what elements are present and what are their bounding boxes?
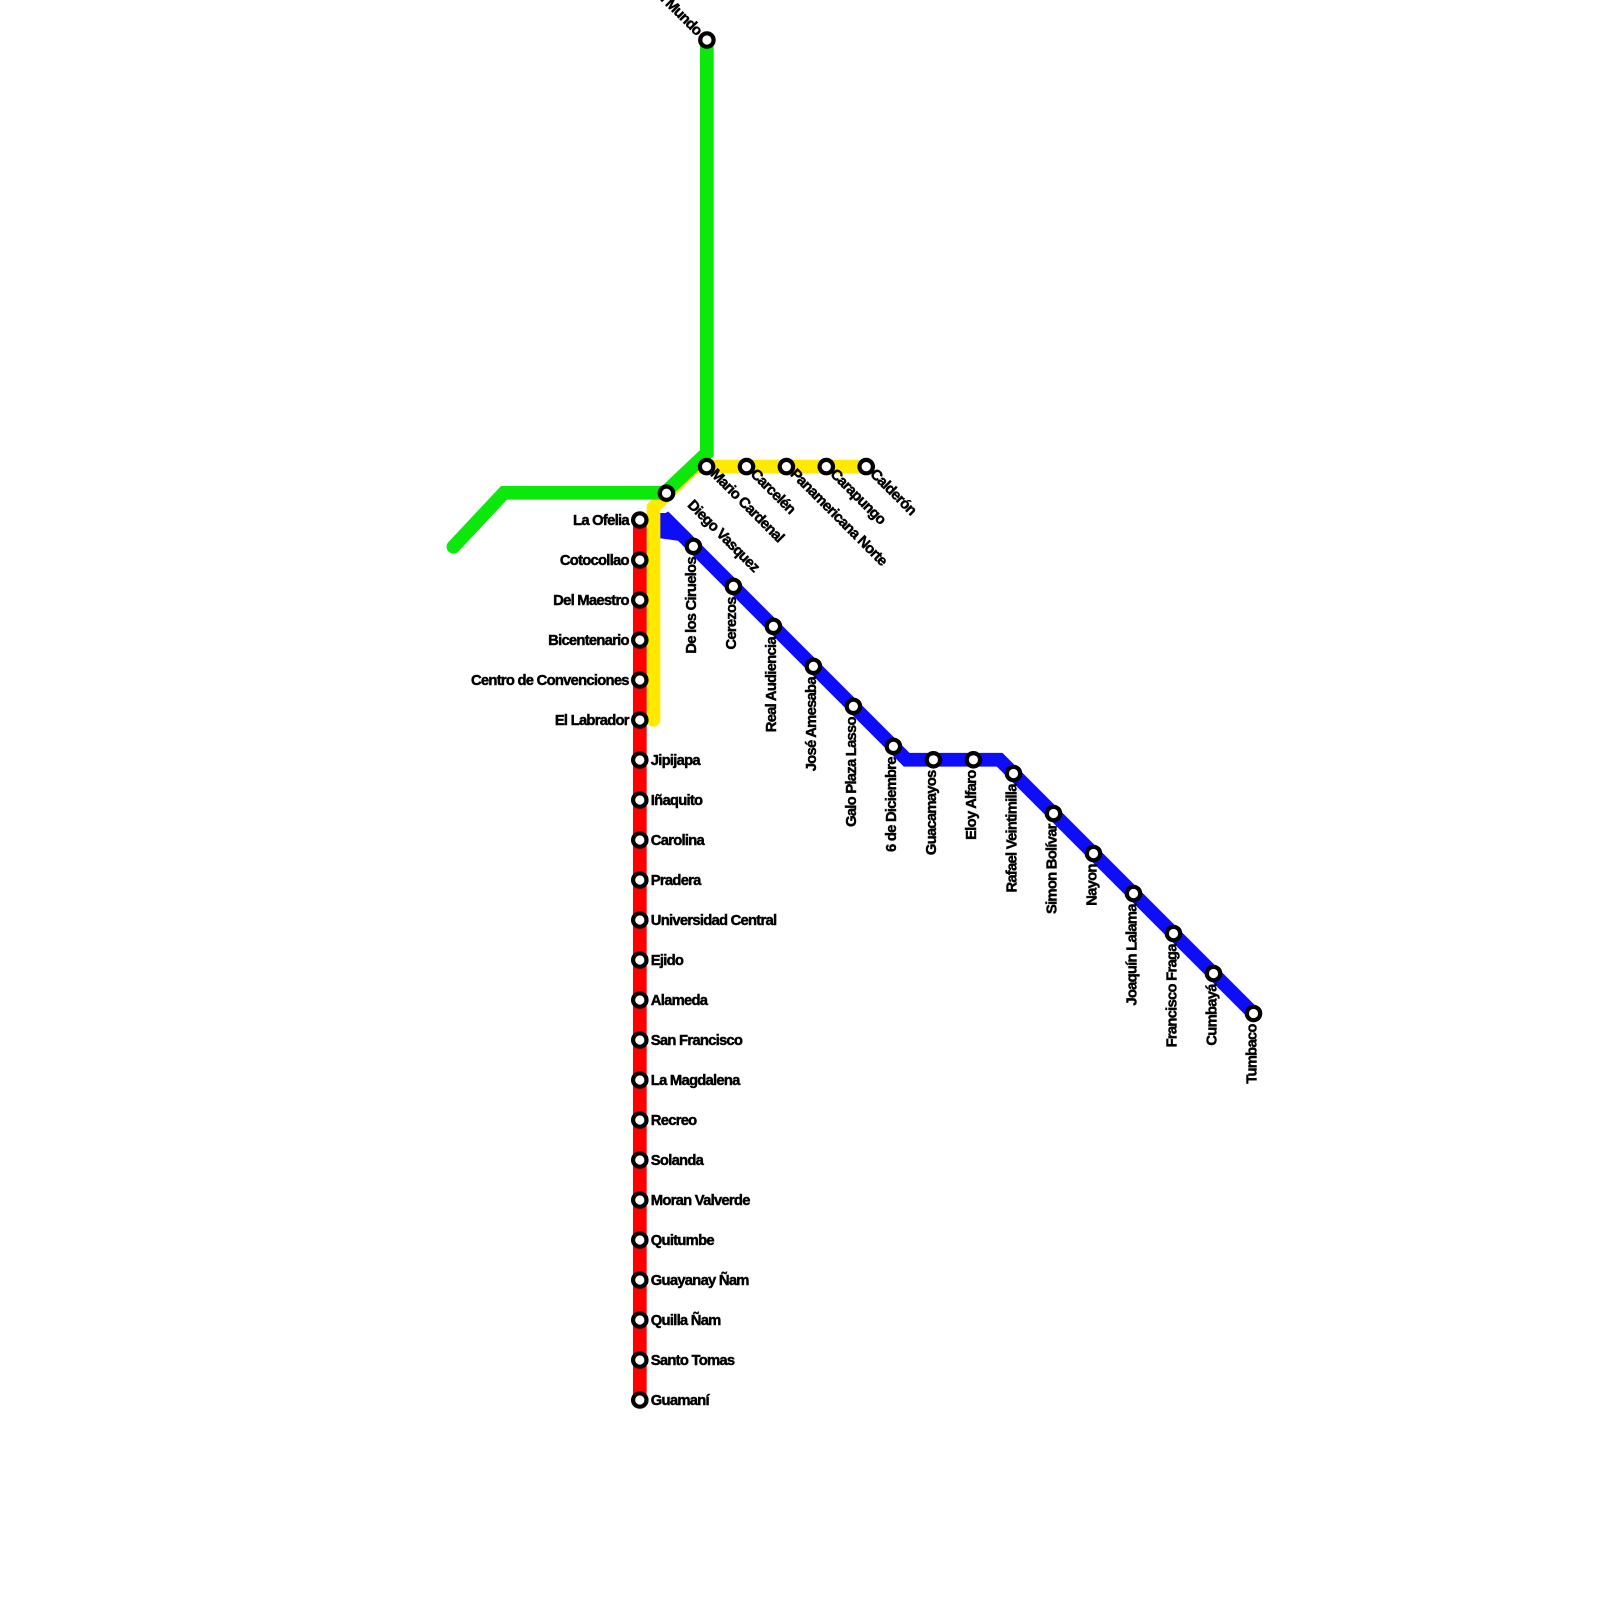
station Cumbayá	[1207, 967, 1220, 980]
svg-text:Eloy Alfaro: Eloy Alfaro	[964, 770, 980, 840]
station Joaquín Lalama	[1127, 887, 1140, 900]
green line (Mitad del Mundo branch)	[453, 40, 706, 547]
station José Amesaba	[807, 660, 820, 673]
station Carolina	[633, 833, 646, 846]
svg-text:Tumbaco: Tumbaco	[1244, 1024, 1260, 1084]
station Bicentenario	[633, 633, 646, 646]
station Simon Bolívar	[1047, 807, 1060, 820]
station Cotocollao	[633, 553, 646, 566]
svg-text:Jipijapa: Jipijapa	[651, 753, 702, 769]
station El Labrador	[633, 713, 646, 726]
svg-text:Quilla Ñam: Quilla Ñam	[651, 1311, 721, 1329]
svg-text:Universidad Central: Universidad Central	[651, 913, 777, 929]
station Guacamayos	[927, 753, 940, 766]
station Calderón	[860, 460, 873, 473]
svg-text:Simon Bolívar: Simon Bolívar	[1044, 823, 1060, 914]
svg-text:Ejido: Ejido	[651, 953, 684, 969]
svg-text:De los Ciruelos: De los Ciruelos	[684, 557, 700, 654]
blue line (to Tumbaco)	[654, 520, 1254, 1014]
svg-text:El Labrador: El Labrador	[555, 713, 630, 729]
station Rafael Veintimilla	[1007, 767, 1020, 780]
station Mitad del Mundo	[700, 33, 713, 46]
svg-text:Cerezos: Cerezos	[724, 597, 740, 650]
svg-text:Carolina: Carolina	[651, 833, 706, 849]
station Recreo	[633, 1113, 646, 1126]
svg-text:Mitad del Mundo: Mitad del Mundo	[619, 0, 705, 39]
station Universidad Central	[633, 913, 646, 926]
station Alameda	[633, 993, 646, 1006]
station La Ofelia	[633, 513, 646, 526]
station Tumbaco	[1247, 1007, 1260, 1020]
svg-text:Centro de Convenciones: Centro de Convenciones	[471, 673, 629, 689]
station Guayanay Ñam	[633, 1273, 646, 1286]
station Mario Cardenal	[700, 460, 713, 473]
station San Francisco	[633, 1033, 646, 1046]
svg-text:Recreo: Recreo	[651, 1113, 697, 1129]
station Pradera	[633, 873, 646, 886]
svg-text:Iñaquito: Iñaquito	[651, 793, 703, 809]
svg-text:Guayanay Ñam: Guayanay Ñam	[651, 1271, 750, 1289]
svg-text:Francisco Fraga: Francisco Fraga	[1164, 943, 1180, 1048]
station Iñaquito	[633, 793, 646, 806]
blue line start wedge	[660, 513, 692, 541]
svg-text:Joaquín Lalama: Joaquín Lalama	[1124, 903, 1140, 1006]
station Jipijapa	[633, 753, 646, 766]
station Santo Tomas	[633, 1353, 646, 1366]
station Quitumbe	[633, 1233, 646, 1246]
yellow line (El Labrador - Calderón)	[654, 467, 867, 720]
station Moran Valverde	[633, 1193, 646, 1206]
svg-text:Pradera: Pradera	[651, 873, 702, 889]
station Carcelén	[740, 460, 753, 473]
svg-text:Alameda: Alameda	[651, 993, 709, 1009]
station Galo Plaza Lasso	[847, 700, 860, 713]
station De los Ciruelos	[687, 540, 700, 553]
station Eloy Alfaro	[967, 753, 980, 766]
svg-text:Nayon: Nayon	[1084, 864, 1100, 906]
station Quilla Ñam	[633, 1313, 646, 1326]
svg-text:Cumbayá: Cumbayá	[1204, 983, 1220, 1046]
svg-text:Bicentenario: Bicentenario	[548, 633, 629, 649]
svg-text:Solanda: Solanda	[651, 1153, 705, 1169]
svg-text:La Ofelia: La Ofelia	[573, 513, 630, 529]
station Real Audiencia	[767, 620, 780, 633]
station Cerezos	[727, 580, 740, 593]
station Ejido	[633, 953, 646, 966]
svg-text:6 de Diciembre: 6 de Diciembre	[884, 757, 900, 852]
station Del Maestro	[633, 593, 646, 606]
svg-text:Cotocollao: Cotocollao	[560, 553, 630, 569]
svg-text:San Francisco: San Francisco	[651, 1033, 743, 1049]
station Panamericana Norte	[780, 460, 793, 473]
svg-text:Galo Plaza Lasso: Galo Plaza Lasso	[844, 716, 860, 826]
station Centro de Convenciones	[633, 673, 646, 686]
svg-text:Guamaní: Guamaní	[651, 1393, 711, 1409]
svg-text:Del Maestro: Del Maestro	[553, 593, 629, 609]
station Francisco Fraga	[1167, 927, 1180, 940]
station Diego Vasquez	[660, 487, 673, 500]
svg-text:Guacamayos: Guacamayos	[924, 770, 940, 855]
station La Magdalena	[633, 1073, 646, 1086]
station Guamaní	[633, 1393, 646, 1406]
svg-text:Rafael Veintimilla: Rafael Veintimilla	[1004, 783, 1020, 893]
svg-text:Quitumbe: Quitumbe	[651, 1233, 715, 1249]
station Nayon	[1087, 847, 1100, 860]
station Carapungo	[820, 460, 833, 473]
svg-text:Moran Valverde: Moran Valverde	[651, 1193, 750, 1209]
red line (La Ofelia - Guamaní)	[633, 520, 647, 1400]
svg-text:La Magdalena: La Magdalena	[651, 1073, 741, 1089]
svg-text:Santo Tomas: Santo Tomas	[651, 1353, 735, 1369]
station 6 de Diciembre	[887, 740, 900, 753]
station Solanda	[633, 1153, 646, 1166]
svg-text:Real Audiencia: Real Audiencia	[764, 636, 780, 733]
svg-text:José Amesaba: José Amesaba	[804, 676, 820, 772]
